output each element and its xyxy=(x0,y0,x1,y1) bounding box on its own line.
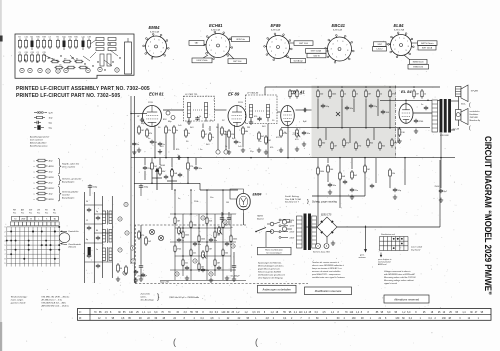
svg-text:7: 7 xyxy=(5,254,6,256)
svg-text:4: 4 xyxy=(211,40,212,42)
resistor R50 xyxy=(214,258,220,266)
svg-text:(: ( xyxy=(255,337,258,347)
fuse holders F1 F2 xyxy=(313,244,330,254)
tube socket diagram ECH81 xyxy=(189,23,250,64)
note text english xyxy=(384,270,416,285)
svg-text:lampe en tension à 220V AC. Le: lampe en tension à 220V AC. Les xyxy=(312,267,342,270)
svg-text:Ausführungsnummer: Ausführungsnummer xyxy=(29,136,50,139)
resistor R63 xyxy=(265,135,271,145)
node tuner 7 xyxy=(123,271,127,275)
capacitor C23 electrolytic xyxy=(137,225,148,281)
resistor R67 xyxy=(351,170,358,180)
wave switch key board table xyxy=(377,233,423,266)
svg-text:6: 6 xyxy=(5,249,6,251)
svg-text:TeF-AW: TeF-AW xyxy=(471,90,479,93)
svg-text:EBC41: EBC41 xyxy=(332,23,346,28)
resistor R54 xyxy=(125,265,128,275)
tuner coil L2 xyxy=(103,229,113,244)
resistor R60 xyxy=(159,166,166,176)
wire EF89 cathode xyxy=(229,125,243,149)
svg-text:C16: C16 xyxy=(24,37,27,39)
svg-text:AM 10/50 kHz ±0,5 ... 26,5 kc: AM 10/50 kHz ±0,5 ... 26,5 kc xyxy=(41,304,70,307)
resistor R12 xyxy=(329,89,337,99)
capacitor C40 xyxy=(164,175,168,179)
svg-text:CIRCUIT DIAGRAM “MODEL 2029 PM: CIRCUIT DIAGRAM “MODEL 2029 PM/WE” xyxy=(483,136,494,295)
svg-text:Sicherg. surge mounting: Sicherg. surge mounting xyxy=(312,201,338,204)
wire HT bus drop xyxy=(264,87,266,95)
svg-text:UKW 57kHz: UKW 57kHz xyxy=(197,60,208,62)
antenna dipole arrows xyxy=(152,165,177,190)
svg-text:Änderungen vorbehalten: Änderungen vorbehalten xyxy=(261,287,291,291)
svg-text:8: 8 xyxy=(5,259,6,261)
capacitor C6 xyxy=(302,131,311,135)
tube socket diagram EBC41 xyxy=(306,23,355,63)
wire rectifier output xyxy=(327,160,440,243)
svg-text:2: 2 xyxy=(394,49,395,51)
resistor R61 xyxy=(171,168,178,178)
svg-text:EF 89: EF 89 xyxy=(228,91,240,96)
tube V5 EM84 xyxy=(237,194,251,214)
svg-text:9: 9 xyxy=(345,55,346,57)
resistor R37 xyxy=(190,220,197,228)
svg-text:UKW: UKW xyxy=(21,219,25,221)
svg-text:7: 7 xyxy=(285,43,286,45)
resistor R6 xyxy=(228,129,235,139)
svg-text:1kΩ: 1kΩ xyxy=(49,117,53,119)
ground g4 xyxy=(279,142,306,153)
svg-text:6: 6 xyxy=(221,38,222,40)
wire tuner rail 1 xyxy=(84,192,86,283)
socket TA1 xyxy=(282,220,292,224)
svg-text:3: 3 xyxy=(269,46,270,48)
svg-text:6p: 6p xyxy=(86,239,88,241)
capacitor C6b xyxy=(303,108,307,112)
wire gray verticals xyxy=(326,128,398,143)
svg-text:8: 8 xyxy=(285,48,286,50)
resistor R31 xyxy=(339,171,346,181)
capacitor C46 xyxy=(227,212,233,229)
tone section wiring xyxy=(160,189,246,280)
svg-text:Zweistreifs: Zweistreifs xyxy=(140,292,151,295)
legend note text xyxy=(29,136,50,148)
capacitor C17 xyxy=(193,242,202,246)
svg-text:85V: 85V xyxy=(163,119,167,121)
wire mid extra xyxy=(160,124,210,168)
fuse note xyxy=(285,195,338,205)
svg-text:400Ω: 400Ω xyxy=(49,165,54,168)
resistor R8 xyxy=(280,128,288,138)
svg-text:2: 2 xyxy=(5,231,6,233)
resistor R43 xyxy=(230,234,238,242)
svg-text:Getrennt geführte: Getrennt geführte xyxy=(62,191,79,194)
svg-text:EL84: EL84 xyxy=(394,23,405,28)
svg-text:Spgl. 216: Spgl. 216 xyxy=(160,281,170,283)
svg-text:signal at aerial: signal at aerial xyxy=(384,282,397,285)
svg-text:Hochtöner: Hochtöner xyxy=(470,113,479,116)
label tuner 1 xyxy=(86,201,88,203)
trimmer capacitors mid xyxy=(166,111,175,120)
resistor R1 xyxy=(138,125,144,135)
trimmer bar black xyxy=(88,247,91,256)
label TA TB xyxy=(257,215,265,221)
mains voltage taps xyxy=(279,219,295,239)
bridge rectifier BR1 xyxy=(317,215,337,238)
resistor R26 xyxy=(391,138,398,148)
component list xyxy=(34,159,83,202)
svg-text:4: 4 xyxy=(333,43,334,45)
wire 215V line xyxy=(281,128,312,136)
capacitor C14 mains xyxy=(435,160,448,202)
svg-text:5: 5 xyxy=(276,39,277,41)
resistor R51 xyxy=(145,236,152,246)
svg-text:6: 6 xyxy=(342,41,343,43)
svg-text:6,3V 0,3A: 6,3V 0,3A xyxy=(150,31,159,34)
svg-text:C3: C3 xyxy=(48,37,50,39)
resistor R2 xyxy=(146,128,153,138)
svg-text:Ausführung austau: Ausführung austau xyxy=(29,145,48,148)
component value annotations xyxy=(137,116,307,153)
wire grid bus ECH81 xyxy=(130,110,183,114)
svg-text:1: 1 xyxy=(5,227,6,229)
capacitor C5 xyxy=(234,140,242,144)
svg-text:1n: 1n xyxy=(96,249,98,251)
chassis dashed outline xyxy=(135,225,308,284)
wire bus y183 xyxy=(134,183,200,185)
resistor R33 xyxy=(389,168,396,178)
svg-text:zusätzlicher: zusätzlicher xyxy=(469,110,480,113)
capacitor C26 xyxy=(139,184,149,196)
svg-text:gegen Masse gemessen.: gegen Masse gemessen. xyxy=(258,269,281,271)
svg-text:6: 6 xyxy=(404,38,405,40)
svg-text:PRINTED LF-CIRCUIT PART NO. 73: PRINTED LF-CIRCUIT PART NO. 7302–505 xyxy=(16,93,120,99)
svg-text:L: L xyxy=(38,219,39,221)
capacitor C33 xyxy=(87,254,91,258)
svg-text:7302-Vkd 20 µF = 7302/0kc/Ac: 7302-Vkd 20 µF = 7302/0kc/Ac xyxy=(169,296,200,299)
svg-text:mains ranges: mains ranges xyxy=(11,298,23,301)
note box aenderungen xyxy=(258,285,297,293)
resistor R41 xyxy=(198,234,206,242)
svg-text:Voltages measured to chassi: Voltages measured to chassis xyxy=(384,270,411,273)
svg-text:Allstrom-Ausführe: Allstrom-Ausführe xyxy=(29,142,47,145)
resistor R45 xyxy=(190,248,197,256)
capacitor C9 xyxy=(369,104,378,108)
svg-text:Mono Combination: Mono Combination xyxy=(265,249,283,252)
svg-text:Anzapfungen: Anzapfungen xyxy=(61,181,75,184)
svg-text:Kontakt für: Kontakt für xyxy=(69,230,79,233)
resistor R14 xyxy=(353,89,359,99)
svg-text:C28: C28 xyxy=(30,52,33,54)
voltage value table xyxy=(78,309,492,321)
svg-text:30: 30 xyxy=(86,201,88,203)
shaded amplifier region xyxy=(312,86,396,159)
tube V4 EL84 xyxy=(399,104,413,124)
label tuner 6 xyxy=(96,249,98,251)
wire left IF bus xyxy=(131,157,312,159)
svg-text:Klink-: Klink- xyxy=(461,104,466,106)
loudspeaker LS2 xyxy=(456,109,482,125)
svg-text:Pos: Pos xyxy=(21,212,24,214)
capacitor C30 xyxy=(96,216,100,220)
node tuner 5 xyxy=(118,248,122,252)
svg-text:SWT 50/4: SWT 50/4 xyxy=(299,43,309,45)
wire v drops mid xyxy=(145,158,196,184)
node 1 xyxy=(201,216,205,220)
svg-text:L4C12: L4C12 xyxy=(377,49,384,51)
svg-text:2: 2 xyxy=(271,51,272,53)
svg-text:1: 1 xyxy=(336,57,337,59)
wire left rail 2 xyxy=(133,96,135,283)
wire tuner rail 4 xyxy=(111,196,113,278)
wave switch contact matrix xyxy=(5,208,61,266)
svg-text:with GRUNDIG vtvm at 220Vac: with GRUNDIG vtvm at 220Vac AC xyxy=(384,273,416,276)
svg-text:C26: C26 xyxy=(24,52,27,54)
resistor R30 xyxy=(317,166,325,176)
svg-text:1: 1 xyxy=(398,52,399,54)
capacitor C9b xyxy=(381,110,390,114)
svg-text:Pos: Pos xyxy=(29,212,32,214)
svg-text:240Ω: 240Ω xyxy=(160,165,165,167)
svg-text:SWT 504: SWT 504 xyxy=(233,61,242,63)
resistor R47 xyxy=(222,248,229,256)
svg-text:pour 50Hz/CCIR – comparaison: pour 50Hz/CCIR – comparaison xyxy=(311,274,341,276)
tuner coil L3 xyxy=(103,247,113,262)
resistor R13 xyxy=(341,89,347,99)
svg-text:R2: R2 xyxy=(18,37,20,39)
svg-text:EF89: EF89 xyxy=(271,23,282,28)
tube V1 ECH81 xyxy=(143,106,162,127)
label ECH81 xyxy=(149,91,164,96)
svg-text:800Ω: 800Ω xyxy=(49,199,54,201)
capacitor C22 xyxy=(217,266,221,270)
capacitor C16 xyxy=(177,238,185,242)
svg-text:key board: key board xyxy=(411,248,421,251)
resistor R44 xyxy=(174,244,182,252)
svg-text:C9: C9 xyxy=(18,52,20,54)
svg-text:dem Leuchten: dem Leuchten xyxy=(62,166,76,169)
wire tuner rail 2 xyxy=(93,192,95,283)
tube socket diagram EM84 xyxy=(143,25,170,59)
resistor R32 xyxy=(364,164,370,174)
capacitor C4 xyxy=(177,155,181,159)
capacitor C43 xyxy=(370,184,374,188)
svg-text:1: 1 xyxy=(215,53,216,55)
scan mark left edge xyxy=(0,36,3,42)
svg-text:Pos: Pos xyxy=(45,212,48,214)
svg-text:1M: 1M xyxy=(217,262,220,264)
resistor R53 xyxy=(117,263,123,273)
svg-text:7: 7 xyxy=(225,41,226,43)
printed LF-circuit assembly drawing xyxy=(15,34,134,78)
svg-text:EM84 Netztr: EM84 Netztr xyxy=(413,61,424,64)
svg-text:1kΩ: 1kΩ xyxy=(49,172,53,174)
svg-text:8: 8 xyxy=(408,46,409,48)
capacitor C42 xyxy=(343,180,347,184)
resistor R3b xyxy=(173,125,179,135)
svg-text:3kΩ: 3kΩ xyxy=(49,161,53,163)
wire rectifier input xyxy=(306,226,317,228)
svg-text:EM84: EM84 xyxy=(149,25,161,30)
potentiometer P3 xyxy=(202,250,207,259)
resistor R35 xyxy=(187,161,194,171)
svg-text:Rand-kontakt: Rand-kontakt xyxy=(69,243,82,246)
svg-text:2: 2 xyxy=(149,50,150,52)
svg-text:Modification réservée: Modification réservée xyxy=(315,289,342,293)
svg-text:240V: 240V xyxy=(290,237,295,239)
capacitor C24 electrolytic xyxy=(231,252,241,281)
node tuner 1 xyxy=(124,202,128,206)
svg-text:Regelb. außer den: Regelb. außer den xyxy=(62,163,80,166)
resistor R48 xyxy=(182,258,189,266)
loudspeaker LS1 xyxy=(456,85,479,102)
tube V2 EF89 xyxy=(228,106,246,127)
svg-text:7847-008: 7847-008 xyxy=(470,116,479,119)
svg-text:ECH81: ECH81 xyxy=(209,23,223,28)
svg-text:9: 9 xyxy=(223,51,224,53)
svg-text:6,3V 0,3A: 6,3V 0,3A xyxy=(211,29,220,32)
svg-text:2: 2 xyxy=(211,50,212,52)
svg-text:normal position: normal position xyxy=(378,261,391,264)
svg-text:1M: 1M xyxy=(201,266,204,268)
svg-text:1M: 1M xyxy=(226,202,229,204)
tube socket diagram EF89 xyxy=(264,23,313,63)
node 3 xyxy=(231,244,235,248)
svg-text:6,3V 0,2A: 6,3V 0,2A xyxy=(271,29,280,32)
svg-text:10n: 10n xyxy=(210,197,213,199)
resistor R52 xyxy=(138,230,145,240)
svg-text:LF 7302-90: LF 7302-90 xyxy=(247,93,259,95)
wire EL84 plate xyxy=(380,100,440,113)
svg-text:7: 7 xyxy=(162,43,163,45)
capacitor C3b xyxy=(140,118,144,122)
wire detector xyxy=(277,110,312,112)
wire transformer secondary xyxy=(441,96,459,160)
svg-text:5: 5 xyxy=(154,39,155,41)
svg-text:3: 3 xyxy=(209,45,210,47)
capacitor C19 xyxy=(225,242,233,246)
note skalen xyxy=(140,292,201,301)
resistor R23 xyxy=(355,141,362,151)
svg-text:1M: 1M xyxy=(367,169,370,171)
svg-text:Membran 8µ: Membran 8µ xyxy=(470,120,482,122)
resistor R3 xyxy=(165,125,172,135)
resistor R38 xyxy=(206,216,213,224)
svg-text:SWT50 Netztr: SWT50 Netztr xyxy=(421,42,434,45)
potentiometer P4 xyxy=(218,226,223,235)
svg-text:50/4 Ampl: 50/4 Ampl xyxy=(294,59,303,62)
title circuit diagram model 2029 xyxy=(483,136,494,295)
svg-text:R6: R6 xyxy=(56,37,58,39)
svg-text:7: 7 xyxy=(407,41,408,43)
svg-text:50/4 W: 50/4 W xyxy=(313,55,319,57)
svg-text:500Ω: 500Ω xyxy=(49,177,54,179)
svg-text:8: 8 xyxy=(347,50,348,52)
wire bus drop a xyxy=(318,99,390,128)
svg-text:1kΩ: 1kΩ xyxy=(49,194,53,196)
label voltage EF89 xyxy=(222,102,243,122)
wire EF89 grid xyxy=(214,109,227,111)
wire tuner cross xyxy=(85,205,113,262)
FM antenna arrow xyxy=(359,226,368,260)
svg-text:Drehkondensator geschlossen: Drehkondensator geschlossen xyxy=(258,274,286,277)
svg-text:7: 7 xyxy=(346,45,347,47)
svg-text:chassis avec GRUNDIG voltmètre: chassis avec GRUNDIG voltmètre à xyxy=(312,264,345,267)
svg-text:SWT 50/4A: SWT 50/4A xyxy=(311,50,322,53)
svg-text:Anzapfungen: Anzapfungen xyxy=(61,197,75,200)
node tuner 3 xyxy=(125,231,129,235)
svg-text:1M: 1M xyxy=(334,146,337,148)
svg-text:Netzverso geräte 4x/2000: Netzverso geräte 4x/2000 xyxy=(258,271,282,274)
label EL84 schematic xyxy=(401,89,412,94)
svg-text:5: 5 xyxy=(5,245,6,247)
symbol legend xyxy=(34,112,53,130)
svg-text:C1: C1 xyxy=(36,52,38,54)
svg-text:5: 5 xyxy=(216,37,217,39)
wire EBC cathode xyxy=(268,124,288,158)
resistor R27 cathode xyxy=(398,127,405,137)
resistor R15 xyxy=(365,89,371,99)
output transformer T3 xyxy=(432,99,451,137)
svg-text:80: 80 xyxy=(96,230,98,232)
svg-text:gammes d'onde: gammes d'onde xyxy=(11,302,27,304)
svg-text:Measuring values valid for CCI: Measuring values valid for CCIR 50 xyxy=(384,277,416,279)
svg-text:R9: R9 xyxy=(30,37,32,39)
mains plug xyxy=(267,222,280,233)
svg-text:R38: R38 xyxy=(42,37,45,39)
svg-text:C38: C38 xyxy=(87,37,90,39)
svg-text:Measuring voltage values wi: Measuring voltage values without xyxy=(384,279,414,282)
node 4 xyxy=(193,259,197,263)
svg-text:170V: 170V xyxy=(148,102,153,104)
resistor R65 xyxy=(209,132,215,142)
resistor R5 xyxy=(221,126,227,136)
svg-text:LF 7302 TPL: LF 7302 TPL xyxy=(185,94,198,96)
ground g2 xyxy=(158,149,162,154)
wire fb h xyxy=(312,178,390,196)
svg-text:press buttons in: press buttons in xyxy=(377,258,391,261)
resistor R25 xyxy=(379,141,386,151)
dial lamps xyxy=(149,229,163,240)
svg-text:LW: LW xyxy=(37,209,40,211)
svg-text:2M: 2M xyxy=(416,94,419,96)
note wave ranges xyxy=(41,295,71,307)
note mains ranges xyxy=(11,295,28,304)
svg-text:50–350µF: 50–350µF xyxy=(231,276,241,278)
resistor R11 xyxy=(317,89,324,99)
svg-text:R35: R35 xyxy=(74,37,77,39)
tuner coil L1 xyxy=(103,210,113,225)
resistor R24 xyxy=(367,138,374,148)
ground g9 xyxy=(116,277,138,283)
svg-text:Gemeins. gesteuerte: Gemeins. gesteuerte xyxy=(62,178,82,181)
svg-text:R15: R15 xyxy=(62,37,65,39)
wire top HT bus xyxy=(265,86,440,88)
ground g1 xyxy=(137,148,141,153)
svg-text:R35: R35 xyxy=(36,37,39,39)
capacitor C2 xyxy=(150,140,158,144)
wire bus y190 xyxy=(200,183,238,190)
resistor R46 xyxy=(206,244,212,252)
label printed assembly part no xyxy=(16,86,150,92)
IF transformer T1 xyxy=(184,94,215,124)
svg-text:EM84: EM84 xyxy=(253,193,262,197)
svg-text:4: 4 xyxy=(5,240,6,242)
cross mark X xyxy=(336,112,340,116)
capacitor C32 xyxy=(96,236,100,240)
svg-text:1: 1 xyxy=(153,53,154,55)
capacitor C8 xyxy=(345,106,354,110)
svg-text:110V: 110V xyxy=(290,220,295,222)
svg-text:8: 8 xyxy=(163,47,164,49)
